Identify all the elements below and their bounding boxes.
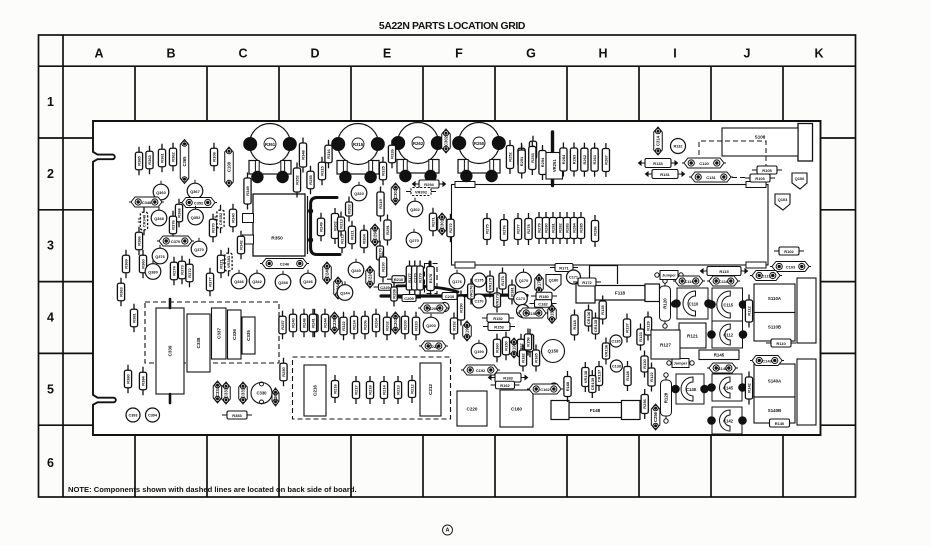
svg-text:C209: C209 [404,296,414,301]
svg-text:4: 4 [47,311,54,325]
transistor Q342 [249,273,265,289]
svg-text:C334: C334 [215,386,220,397]
resistor R249 [317,213,324,242]
svg-text:R384: R384 [141,375,146,385]
svg-text:R102: R102 [784,249,794,254]
resistor R204 [372,309,379,338]
svg-text:R212: R212 [410,383,415,393]
svg-text:R122: R122 [649,371,654,381]
resistor R153 [483,323,515,331]
transistor Q367 [187,183,203,199]
capacitor C246 [260,259,309,269]
resistor R384 [139,367,146,396]
svg-text:VR383: VR383 [226,255,231,268]
svg-text:R281: R281 [551,222,556,232]
svg-text:R261: R261 [592,154,597,164]
resistor R257 [279,311,286,340]
resistor R251 [518,145,525,179]
svg-text:R368: R368 [177,207,182,217]
svg-text:R216: R216 [333,383,338,393]
transistor Q320 [351,185,367,201]
resistor R254 [539,145,546,180]
resistor R214 [380,376,387,404]
svg-text:E: E [383,47,391,61]
svg-text:VR136: VR136 [604,344,609,357]
svg-text:CR137: CR137 [597,369,602,382]
svg-text:B: B [166,47,175,61]
svg-text:R132: R132 [673,144,682,148]
svg-text:R270: R270 [378,247,383,257]
svg-text:C336: C336 [232,329,237,340]
capacitor C352 [180,198,217,208]
resistor R278 [525,213,532,245]
svg-text:Q176: Q176 [452,279,462,284]
capacitor C348 [129,197,164,207]
svg-text:2: 2 [47,167,54,181]
resistor R383 [222,411,252,419]
resistor R162 [491,381,520,389]
svg-text:R118: R118 [572,320,577,330]
svg-text:R121: R121 [687,333,698,338]
resistor R224 [350,311,357,340]
svg-text:C146: C146 [718,366,728,371]
svg-text:C302: C302 [444,135,449,146]
svg-text:R160: R160 [495,342,500,352]
svg-text:C131: C131 [706,175,716,180]
svg-text:R165: R165 [534,352,539,362]
svg-text:R272: R272 [448,222,453,232]
svg-text:R325: R325 [381,165,386,175]
svg-text:R267: R267 [603,154,608,164]
power resistor R315 [332,124,384,183]
svg-text:R302: R302 [333,220,338,230]
capacitor C314 [654,127,663,155]
capacitor C152 [517,308,548,318]
resistor R274 [170,257,177,286]
svg-text:R263: R263 [572,154,577,164]
resistor R140 [765,419,795,427]
resistor R370 [209,214,216,243]
switch S140B [754,397,795,423]
capacitor C338 [187,314,210,372]
diode CR135 [592,313,599,340]
potentiometer VR251 [546,153,563,180]
resistor R256 [641,389,648,419]
resistor R363 [117,278,124,307]
transistor Q200 [423,317,439,333]
svg-text:Jumper: Jumper [662,273,676,277]
resistor R286 [591,215,598,247]
svg-text:R241: R241 [311,317,316,327]
resistor R120 [660,279,671,328]
circuit board outline [93,121,821,435]
capacitor C171 [567,270,581,284]
svg-text:Q380: Q380 [148,269,158,274]
svg-text:C301: C301 [440,218,445,229]
diode CR139 [589,370,596,398]
jumper wire [655,271,683,280]
capacitor C119 [673,276,705,286]
svg-text:R172: R172 [582,280,592,285]
resistor R281 [549,212,556,244]
resistor R162 [517,334,524,363]
svg-text:Q200: Q200 [426,323,436,328]
junction dots on bus [308,208,313,213]
svg-text:R315: R315 [353,142,364,147]
resistor R150 [502,332,509,361]
svg-text:F118: F118 [615,291,626,296]
svg-text:R208: R208 [392,288,397,298]
transistor Q348 [151,210,167,226]
svg-text:C191: C191 [512,342,517,353]
svg-text:C119: C119 [684,279,694,284]
svg-text:C190: C190 [465,325,470,336]
svg-text:Q270: Q270 [409,238,419,243]
resistor R123 [637,324,644,351]
capacitor C335 [242,317,255,354]
svg-text:R321: R321 [350,229,355,239]
svg-text:3: 3 [47,239,54,253]
svg-text:R370: R370 [211,222,216,232]
svg-text:Q320: Q320 [354,191,364,196]
capacitor R132 [671,139,686,154]
resistor C210 [437,293,462,300]
svg-text:R230: R230 [381,261,386,271]
svg-text:VR302: VR302 [415,189,428,194]
resistor R255 [307,166,314,195]
svg-text:C108: C108 [227,161,232,172]
svg-text:Q244: Q244 [340,290,350,295]
resistor R230 [379,252,387,283]
svg-text:R171: R171 [559,265,569,270]
resistor C229 [374,284,397,291]
resistor R363 [146,146,153,175]
svg-text:C338: C338 [196,337,201,348]
resistor R284 [570,212,577,244]
capacitor C170 [472,294,486,308]
resistor R181 [509,280,516,305]
svg-text:R363: R363 [147,154,152,164]
resistor R206 [361,311,368,340]
svg-text:R192: R192 [452,320,457,330]
svg-text:Q170: Q170 [519,278,529,283]
power resistor R361 [244,124,296,183]
svg-text:C200: C200 [429,306,439,311]
switch S140 frame [797,359,816,425]
resistor R217 [352,376,359,404]
resistor R352 [293,163,300,198]
capacitor C138 [610,360,622,372]
resistor R135 [599,296,606,325]
resistor R130 [641,351,648,378]
svg-text:C298: C298 [373,229,378,240]
transistor Q302 [407,201,423,217]
svg-text:R377: R377 [208,276,213,286]
svg-text:F: F [455,47,463,61]
resistor R240 [289,309,296,338]
svg-text:R274: R274 [172,265,177,275]
resistor R115 [701,267,748,276]
svg-text:Q246: Q246 [303,279,313,284]
transistor Q106 [792,173,807,189]
resistor R171 [550,264,578,272]
resistor R322 [340,312,347,341]
svg-text:Q367: Q367 [190,189,200,194]
svg-text:C330: C330 [256,391,267,396]
resistor R360 [139,250,146,279]
capacitor C110 [673,288,713,319]
svg-text:R128: R128 [625,370,630,380]
svg-text:R282: R282 [558,222,563,232]
capacitor C224 [366,266,375,288]
svg-text:C394: C394 [148,413,158,417]
svg-text:Q352: Q352 [191,215,201,220]
capacitor C143 [750,356,784,366]
resistor R165 [532,345,539,372]
transistor Q246 [300,273,316,289]
svg-text:5: 5 [47,382,54,396]
svg-text:CR135: CR135 [593,319,598,332]
capacitor C220 [457,391,487,426]
transistor Q346 [231,273,247,289]
svg-text:C: C [238,47,247,61]
resistor R131 [646,170,685,179]
resistor R279 [535,212,542,244]
capacitor C256 [651,404,660,430]
svg-text:C337: C337 [216,328,221,339]
wire W4b upper bus [397,286,458,292]
resistor R212 [408,375,415,403]
svg-text:R137: R137 [625,322,630,332]
resistor R381 [130,304,137,333]
wire W5b VR251 stem lower [551,179,554,186]
resistor R350 [253,194,305,256]
svg-text:C331: C331 [241,387,246,398]
svg-text:VR138: VR138 [583,370,588,383]
capacitor C175 [472,273,486,287]
wire W7 C339 lead [169,394,172,403]
svg-text:C370: C370 [171,239,181,244]
transistor Q370 [191,241,207,257]
resistor R129 [644,312,651,341]
capacitor C192 [461,365,500,375]
capacitor C131 [689,172,733,182]
capacitor C115 [708,288,747,321]
svg-text:C154: C154 [550,308,555,319]
svg-text:R376: R376 [171,219,176,229]
fuse F148 [569,403,622,418]
resistor R103 [745,174,775,182]
resistor R302 [331,208,338,244]
svg-text:R278: R278 [526,223,531,233]
fuse F118 [595,286,645,301]
svg-text:R276: R276 [502,224,507,234]
svg-text:C246: C246 [280,261,290,266]
svg-text:C116: C116 [719,279,729,284]
svg-text:C256: C256 [653,411,658,422]
svg-text:R264: R264 [561,154,566,164]
svg-text:C143: C143 [762,358,772,363]
svg-text:R366: R366 [137,235,142,245]
svg-text:Q348: Q348 [154,216,164,221]
svg-text:R348: R348 [301,149,306,159]
svg-text:R349: R349 [245,185,250,195]
svg-text:R131: R131 [660,172,670,177]
svg-text:6: 6 [47,456,54,470]
capacitor C240 [323,262,332,284]
resistor R168 [564,371,571,402]
svg-text:R217: R217 [354,384,359,394]
svg-text:A: A [446,527,450,533]
svg-text:R130: R130 [642,358,647,368]
svg-text:C112: C112 [723,332,733,337]
resistor R156 [524,329,531,356]
resistor R180 [531,292,557,300]
resistor R264 [560,143,567,177]
svg-text:R152: R152 [493,316,503,321]
svg-text:C152: C152 [528,311,538,316]
capacitor C142 [708,407,747,434]
capacitor C112 [708,321,747,348]
svg-text:R190: R190 [459,302,464,312]
resistor R218 [366,376,373,404]
svg-text:R340: R340 [231,212,236,222]
svg-text:C145: C145 [723,385,734,390]
resistor R262 [581,143,588,177]
svg-text:R123: R123 [638,331,643,341]
svg-text:R316: R316 [326,148,331,158]
svg-text:Q258: Q258 [278,280,288,285]
svg-text:R204: R204 [374,317,379,327]
jumper wire [667,359,694,368]
svg-text:R302: R302 [347,203,352,213]
resistor VR173 [494,288,501,313]
svg-text:R257: R257 [280,319,285,329]
svg-text:C221: C221 [429,344,439,349]
svg-text:R294: R294 [424,182,434,187]
transistor Q244 [337,285,353,301]
resistor R361 [158,144,165,173]
transistor Q380 [145,264,161,280]
svg-text:C192: C192 [476,368,486,373]
resistor R210 [387,276,410,283]
capacitor C146 [707,363,738,373]
capacitor C160 [500,390,533,427]
resistor R122 [648,363,655,392]
transistor Q170 [516,272,532,288]
svg-text:C138: C138 [612,364,621,368]
capacitor C116 [707,276,740,286]
capacitor C393 [126,408,140,422]
resistor R137 [623,314,630,343]
svg-text:R210: R210 [394,277,404,282]
resistor VR302 [406,188,436,196]
resistor R275 [483,213,490,245]
transistor Q176 [449,273,465,289]
svg-text:Q376: Q376 [155,254,165,259]
capacitor C302 [442,129,451,153]
svg-text:A: A [94,47,103,61]
resistor R152 [482,314,514,322]
svg-text:R381: R381 [132,312,137,322]
svg-text:R183: R183 [503,375,513,380]
resistor R127 [651,330,680,359]
resistor R272 [447,214,454,243]
capacitor C145 [708,374,747,401]
resistor R326 [388,140,395,169]
resistor R261 [591,143,598,177]
switch S110 frame [797,278,816,343]
svg-text:R112: R112 [747,306,752,316]
svg-text:C348: C348 [142,200,152,205]
resistor R128 [624,361,631,391]
svg-text:S140B: S140B [768,408,781,413]
svg-text:R254: R254 [540,157,545,167]
resistor R313 [338,225,345,254]
resistor R179 [417,261,424,296]
switch S110B [754,313,795,342]
svg-text:J: J [744,47,751,61]
capacitor C170 [535,274,544,294]
svg-text:R352: R352 [295,174,300,184]
svg-text:R369: R369 [124,258,129,268]
module U270 outline [452,185,769,266]
svg-text:C339: C339 [168,345,173,356]
resistor R282 [556,212,563,244]
svg-text:Q302: Q302 [410,207,420,212]
capacitor C200 [418,303,449,313]
svg-text:R250: R250 [281,366,286,376]
svg-text:C160: C160 [511,406,522,411]
svg-text:R342: R342 [239,239,244,249]
capacitor C154 [548,305,557,324]
resistor R244 [321,309,328,338]
transistor Q190 [471,343,487,359]
capacitor C113 [750,271,782,281]
svg-text:R252: R252 [508,151,513,161]
switch S108 [722,128,798,156]
svg-text:R320: R320 [414,320,419,330]
capacitor C162 [527,384,563,394]
svg-text:C170: C170 [474,299,483,303]
resistor R277 [514,213,521,245]
svg-text:R206: R206 [363,319,368,329]
resistor R362 [169,143,176,172]
transistor Q150 [542,340,565,363]
svg-text:Q370: Q370 [194,247,204,252]
svg-text:R173: R173 [500,275,505,285]
switch S140A [754,364,795,397]
transistor Q376 [152,248,168,264]
capacitor C221 [419,341,448,351]
resistor R155 [526,329,533,358]
resistor R110 [766,339,796,347]
resistor R102 [774,247,804,255]
svg-text:R145: R145 [714,353,725,358]
resistor R319 [377,187,384,222]
svg-text:C220: C220 [467,406,478,411]
capacitor C333 [222,382,231,404]
svg-text:C352: C352 [194,200,204,205]
resistor R368 [175,199,182,228]
svg-text:C335: C335 [246,330,251,341]
power resistor R250 [453,123,505,182]
svg-text:R373: R373 [180,264,185,274]
capacitor C331 [239,382,248,404]
transistor Q270 [406,232,422,248]
resistor VR176 [468,279,475,305]
svg-text:C175: C175 [474,278,483,282]
